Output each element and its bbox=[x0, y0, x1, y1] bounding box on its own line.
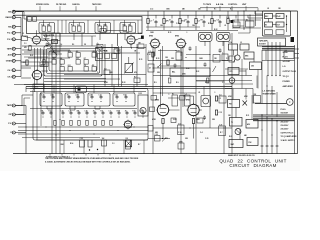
value label right-mid bbox=[171, 58, 175, 60]
cluster box C bbox=[229, 56, 235, 62]
valve V1 EF86 bbox=[149, 36, 161, 50]
jack contact box 4 bbox=[276, 22, 284, 27]
svg-text:POWER: POWER bbox=[283, 81, 291, 83]
svg-text:TO TAPE: TO TAPE bbox=[203, 3, 212, 6]
svg-text:C.25: C.25 bbox=[176, 23, 179, 25]
net label right2 3 bbox=[281, 125, 290, 127]
wire inter-group drop bbox=[57, 20, 59, 34]
wire balance bus bbox=[153, 60, 232, 62]
svg-text:C.19: C.19 bbox=[178, 123, 181, 125]
input socket P.U.1 bbox=[7, 31, 15, 34]
wire riser C bbox=[195, 46, 197, 154]
svg-text:R.9: R.9 bbox=[176, 82, 179, 84]
svg-text:.01: .01 bbox=[198, 92, 200, 94]
wire u-loop B bbox=[70, 106, 75, 110]
wire selector riser short bbox=[73, 85, 75, 94]
svg-text:.1: .1 bbox=[97, 43, 98, 45]
value label bbox=[168, 32, 171, 34]
wire psu verticals bbox=[246, 70, 258, 100]
svg-text:10K: 10K bbox=[41, 111, 44, 113]
capacitor C31 bbox=[69, 110, 73, 118]
svg-text:C.25: C.25 bbox=[205, 138, 208, 140]
value label centre bbox=[104, 50, 107, 53]
wire assembly drops bbox=[205, 41, 223, 46]
tone net box r0x52 bbox=[52, 50, 57, 57]
wire inter-group drop bbox=[137, 20, 139, 34]
wire group feed bbox=[44, 20, 50, 26]
wire input lead bbox=[15, 48, 21, 50]
wire stub edge bbox=[295, 49, 300, 58]
psu mid box bbox=[254, 94, 261, 103]
wire selector riser bbox=[83, 140, 85, 154]
wire filter drop bbox=[73, 34, 75, 41]
wire selector riser bbox=[143, 140, 145, 154]
selector group cap C26 bbox=[115, 94, 119, 102]
svg-text:C.7: C.7 bbox=[109, 111, 111, 113]
wire filter drop bbox=[45, 34, 47, 41]
wire inter-group drop bbox=[87, 20, 89, 34]
switch group res R4 bbox=[129, 26, 133, 31]
dropper resistor R60 bbox=[147, 52, 154, 57]
wire selector riser short bbox=[93, 85, 95, 94]
selector group cap C23 bbox=[76, 95, 80, 102]
svg-text:R.9: R.9 bbox=[154, 82, 157, 84]
coupling box E bbox=[134, 76, 140, 82]
switch group res R1 bbox=[48, 26, 52, 31]
wire left rows 3 bbox=[14, 52, 60, 85]
svg-text:C.12: C.12 bbox=[150, 9, 153, 11]
selector group cap C22 bbox=[67, 95, 71, 102]
svg-text:R.9: R.9 bbox=[101, 111, 103, 113]
svg-text:TAPE: TAPE bbox=[7, 104, 13, 107]
wire PSU rule bbox=[225, 89, 253, 104]
value label bbox=[160, 25, 164, 27]
coupling capacitor C72 bbox=[178, 140, 184, 149]
tone net box r1x52 bbox=[52, 58, 57, 64]
wire low bus B bbox=[18, 130, 148, 132]
coupling capacitor C14 bbox=[217, 19, 222, 25]
wire mic top link bbox=[17, 10, 19, 13]
resistor R43 bbox=[70, 120, 72, 125]
selector enclosure outer bbox=[33, 89, 148, 141]
svg-text:A GUIDE. ALTERNATE CHECKS SHO: A GUIDE. ALTERNATE CHECKS SHOULD BE MADE… bbox=[45, 160, 131, 163]
net label FILTER SW. bbox=[56, 4, 67, 11]
wire lower lead bbox=[15, 123, 26, 125]
wire selector riser short bbox=[133, 85, 135, 94]
wire top bus 2 bbox=[13, 14, 263, 16]
tone enclosure outer bbox=[44, 46, 102, 76]
resistor R48 bbox=[110, 120, 112, 125]
valve V7 output bbox=[155, 100, 170, 118]
switch group 2 bbox=[69, 23, 85, 34]
value label right-mid bbox=[152, 118, 157, 121]
switch group res R2 bbox=[78, 26, 82, 31]
smoothing block 2 bbox=[240, 42, 249, 50]
wire PSU risers bbox=[233, 89, 252, 140]
jack contact box 5 bbox=[265, 30, 273, 35]
smoothing block 1 bbox=[229, 41, 238, 50]
filter network enclosure bbox=[27, 17, 143, 34]
bias box bbox=[52, 40, 58, 44]
wire filter drop bbox=[99, 34, 101, 41]
wire anode feed bbox=[171, 15, 173, 18]
svg-text:R.7: R.7 bbox=[138, 144, 141, 146]
tone net box r1x84 bbox=[84, 58, 89, 64]
twin diode assembly 2 bbox=[217, 32, 231, 41]
wire centre riser bbox=[136, 44, 138, 87]
net label TAPE REC. bbox=[92, 3, 102, 11]
tone net box r1x60 bbox=[60, 58, 64, 64]
capacitor C18b bbox=[46, 42, 49, 46]
switch group labels bbox=[122, 25, 132, 27]
input socket CH.2 bbox=[7, 75, 15, 78]
input socket RADIO bbox=[5, 16, 15, 19]
cathode resistor R64 bbox=[192, 119, 194, 139]
value label right-mid bbox=[196, 119, 201, 121]
svg-text:200-210V: 200-210V bbox=[281, 122, 290, 124]
selector group cap C24 bbox=[90, 95, 94, 102]
tone net box r2x68 bbox=[68, 65, 73, 71]
input socket CH.1 bbox=[7, 69, 15, 72]
svg-text:TRANSFORMER: TRANSFORMER bbox=[263, 93, 277, 96]
wire input lead bbox=[15, 69, 21, 71]
screen box V8r bbox=[197, 118, 203, 123]
svg-text:C.7: C.7 bbox=[60, 65, 62, 67]
junction dots centre bbox=[104, 47, 137, 75]
wire selector riser bbox=[103, 140, 105, 154]
value label right-mid bbox=[185, 138, 189, 140]
resistor R20b bbox=[43, 60, 45, 65]
wire centre riser bbox=[104, 44, 106, 87]
sensitivity label box bbox=[33, 84, 44, 89]
input socket MIC bbox=[8, 25, 15, 28]
svg-text:CIRCUIT DIAGRAM: CIRCUIT DIAGRAM bbox=[229, 163, 276, 168]
value label bbox=[208, 23, 211, 25]
value label right-mid bbox=[214, 92, 215, 94]
plug pin bars bbox=[261, 145, 279, 147]
riser box C36 bbox=[176, 50, 182, 60]
resistor R66 bbox=[215, 110, 222, 115]
value label right-mid bbox=[198, 92, 200, 94]
capacitor block C49 bbox=[80, 138, 85, 147]
value label centre bbox=[97, 71, 100, 74]
output socket 2 bbox=[8, 113, 15, 116]
wire selector riser short bbox=[113, 85, 115, 94]
wire group feed bbox=[74, 20, 80, 26]
wire right-edge rail bbox=[297, 11, 299, 154]
mid box 219 bbox=[219, 93, 226, 103]
selector switch wafer bbox=[46, 40, 57, 55]
svg-text:FS2: FS2 bbox=[249, 142, 252, 144]
svg-text:FILTER SW.: FILTER SW. bbox=[56, 4, 67, 6]
wire input lead bbox=[15, 11, 18, 13]
input socket TAPE bbox=[7, 47, 16, 50]
grid resistor R18 bbox=[23, 60, 29, 65]
paper background bbox=[0, 0, 300, 171]
value label bbox=[150, 32, 155, 34]
wire psu drop 242 bbox=[241, 59, 243, 89]
value label right-mid bbox=[154, 82, 157, 84]
svg-text:C.7: C.7 bbox=[222, 82, 225, 84]
selector group box 88 bbox=[88, 93, 110, 106]
wire cap lead bbox=[187, 24, 189, 27]
bottom label row bbox=[46, 155, 70, 158]
switch contact dots bbox=[45, 39, 54, 52]
dropper resistor box bbox=[228, 68, 239, 75]
jack contact box 6 bbox=[276, 30, 284, 35]
capacitor C37 bbox=[117, 111, 121, 118]
wire left rows 2 bbox=[21, 62, 52, 66]
svg-text:OUT: OUT bbox=[277, 25, 280, 27]
svg-text:R.22: R.22 bbox=[205, 82, 208, 84]
valve V8 output bbox=[186, 100, 201, 118]
mic link box bbox=[40, 62, 48, 67]
net label STEREO MON. bbox=[36, 4, 50, 11]
output socket 3 bbox=[8, 122, 15, 125]
wire double riser A bbox=[161, 46, 163, 108]
value label right-mid bbox=[173, 119, 177, 121]
anode resistor R10 bbox=[147, 19, 152, 24]
svg-text:C.12: C.12 bbox=[99, 95, 102, 97]
jack contact box 2 bbox=[276, 14, 284, 19]
note line 1 bbox=[45, 157, 139, 160]
svg-text:R.9: R.9 bbox=[84, 65, 86, 67]
svg-text:R.7: R.7 bbox=[134, 76, 137, 78]
svg-text:OUTPUT PLUG: OUTPUT PLUG bbox=[283, 71, 297, 73]
net label right2 1 bbox=[281, 113, 289, 115]
wire screened riser bbox=[55, 33, 57, 154]
wire screened riser bbox=[51, 33, 53, 154]
selector group cap C27 bbox=[124, 95, 128, 102]
pu adaptor panel bbox=[96, 48, 119, 61]
filter box C39 bbox=[148, 50, 154, 61]
wire anode feed bbox=[187, 15, 189, 18]
net label CONTROL bbox=[228, 4, 238, 11]
value label right-mid bbox=[156, 58, 159, 60]
coupling capacitor C13 bbox=[201, 20, 206, 25]
wire jack links bbox=[269, 16, 287, 32]
dark connector blob bbox=[291, 37, 295, 42]
wire low bus A bbox=[18, 126, 148, 128]
coupling box C bbox=[138, 42, 144, 48]
selector group cap C21 bbox=[51, 95, 55, 102]
input socket AUX bbox=[8, 53, 16, 56]
wire aux bus bbox=[196, 80, 252, 82]
wire output cable bbox=[255, 103, 286, 105]
wire left vertical bundle bbox=[35, 48, 44, 92]
svg-text:CANCEL: CANCEL bbox=[72, 3, 81, 6]
wire u-loop C bbox=[95, 106, 100, 109]
tone net box r2x60 bbox=[60, 65, 64, 71]
value label right-mid bbox=[186, 68, 189, 70]
coupling capacitor C11 bbox=[169, 20, 174, 25]
wire box-left links bbox=[232, 11, 261, 28]
selector group box 65 bbox=[65, 93, 84, 106]
svg-text:R.22: R.22 bbox=[186, 68, 189, 70]
junction dots mid2 bbox=[153, 50, 211, 69]
svg-text:R.22: R.22 bbox=[122, 82, 125, 84]
net label right2 0 bbox=[281, 109, 287, 111]
wire anode feed bbox=[219, 15, 221, 18]
jack contact box 1 bbox=[265, 14, 273, 19]
svg-text:R.1: R.1 bbox=[214, 9, 217, 11]
component crossed box bbox=[126, 140, 132, 147]
svg-text:.05: .05 bbox=[267, 8, 269, 10]
selector group cap C25 bbox=[99, 95, 103, 102]
svg-text:.05: .05 bbox=[246, 19, 248, 21]
wire under-filter row bbox=[44, 35, 96, 37]
svg-text:R.22: R.22 bbox=[124, 95, 127, 97]
svg-text:12 AUX. SUPPLY: 12 AUX. SUPPLY bbox=[281, 139, 296, 142]
wire resistor lead bbox=[163, 24, 165, 31]
svg-text:AMPLIFIER: AMPLIFIER bbox=[283, 85, 294, 88]
coupling box B bbox=[114, 47, 120, 53]
resistor R62 bbox=[165, 57, 169, 65]
svg-text:C.3: C.3 bbox=[185, 93, 187, 95]
value label right-mid bbox=[165, 137, 169, 140]
capacitor C60 bbox=[174, 63, 177, 67]
wire input lead bbox=[15, 38, 21, 40]
psu feed box bbox=[246, 19, 255, 27]
wire anode feed bbox=[179, 11, 181, 19]
psu value label bbox=[244, 95, 249, 98]
svg-text:RADIO: RADIO bbox=[5, 16, 12, 19]
cluster box B bbox=[222, 52, 228, 60]
resistor R47 bbox=[102, 120, 104, 125]
coupling box A bbox=[97, 43, 103, 49]
svg-text:TO Q.II: TO Q.II bbox=[283, 76, 290, 78]
wire resistor lead bbox=[211, 24, 213, 31]
svg-text:.1: .1 bbox=[222, 52, 223, 54]
tone net box r1x76 bbox=[76, 58, 81, 64]
svg-text:PLUG: PLUG bbox=[281, 109, 287, 111]
wire filter bus bbox=[153, 75, 252, 77]
capacitor C62 bbox=[204, 62, 207, 66]
wire cathode drop bbox=[154, 49, 156, 56]
capacitor C29 bbox=[49, 110, 53, 118]
wire anode feed bbox=[227, 11, 229, 19]
svg-text:C.25: C.25 bbox=[61, 111, 64, 113]
svg-text:CONTROL: CONTROL bbox=[228, 4, 238, 6]
value label centre bbox=[134, 51, 137, 53]
wire lower bends bbox=[15, 95, 33, 115]
wire input lead bbox=[15, 32, 21, 34]
wire cable drop bbox=[262, 50, 266, 60]
wire input lead bbox=[15, 76, 21, 78]
wire lower riser bbox=[25, 106, 27, 154]
value label right-mid bbox=[199, 58, 204, 60]
grid box V8 bbox=[180, 96, 186, 101]
svg-text:L.S.: L.S. bbox=[283, 66, 287, 68]
svg-text:.1: .1 bbox=[168, 94, 169, 96]
junction dot tape B bbox=[286, 24, 287, 25]
switch group cap C3 bbox=[98, 26, 102, 31]
svg-text:C.19: C.19 bbox=[178, 132, 181, 134]
junction dots cable top bbox=[261, 85, 272, 135]
psu value label bbox=[229, 136, 232, 138]
wire HT dropper column bbox=[152, 46, 154, 154]
resistor R67 bbox=[169, 78, 171, 83]
net label right2 5 bbox=[281, 133, 294, 135]
tone net box r0x76 bbox=[76, 50, 81, 57]
svg-text:T1: T1 bbox=[231, 122, 233, 124]
wire cable risers mid bbox=[267, 76, 277, 117]
svg-text:C80: C80 bbox=[251, 66, 254, 68]
wire mic grid bbox=[18, 12, 33, 39]
svg-text:C.7: C.7 bbox=[226, 58, 229, 60]
pilot lamp bbox=[235, 129, 241, 135]
cluster box A bbox=[213, 55, 220, 63]
coupling capacitor C10 bbox=[153, 20, 158, 25]
wire selector riser bbox=[63, 140, 65, 154]
svg-text:MR1: MR1 bbox=[245, 56, 248, 58]
wire HT+ top bus bbox=[13, 10, 298, 12]
switch group cap C2 bbox=[72, 26, 76, 31]
wire psu feed rows bbox=[232, 26, 250, 33]
wire mic out rows bbox=[22, 46, 70, 58]
wire tube links bbox=[168, 98, 202, 110]
capacitor C30 bbox=[61, 111, 65, 118]
value label right-mid bbox=[176, 82, 179, 84]
filter choke box bbox=[284, 50, 294, 59]
title line 1 bbox=[219, 158, 286, 163]
cathode resistor R63 bbox=[162, 119, 164, 139]
value label right-mid bbox=[212, 119, 216, 121]
svg-text:R.22: R.22 bbox=[139, 93, 142, 95]
svg-text:.05: .05 bbox=[93, 111, 95, 113]
feed box 233 bbox=[233, 20, 240, 27]
interstage box V3pos bbox=[100, 29, 106, 33]
svg-text:R.31: R.31 bbox=[68, 65, 71, 67]
wire riser F bbox=[231, 33, 233, 154]
wire tape cable bbox=[262, 47, 295, 51]
tone net box r2x92 bbox=[92, 64, 97, 71]
capacitor block C51 bbox=[126, 138, 131, 149]
wire lower lead bbox=[15, 132, 26, 134]
capacitor C35 bbox=[101, 111, 105, 118]
wire inter-group drop bbox=[61, 20, 63, 34]
tone enclosure inner bbox=[49, 51, 97, 71]
electrolytic can box bbox=[76, 86, 87, 93]
grid box V7 bbox=[151, 96, 157, 101]
svg-text:EF86: EF86 bbox=[186, 100, 190, 102]
svg-text:SOCKET: SOCKET bbox=[283, 61, 292, 63]
wire interstage bus A bbox=[146, 30, 238, 32]
net label right 2 bbox=[283, 61, 292, 63]
thermistor housing bbox=[201, 96, 211, 107]
anode resistor R12 bbox=[179, 19, 185, 24]
wiper arrow bbox=[162, 138, 166, 142]
value label right-mid bbox=[168, 94, 169, 96]
mic adaptor label box bbox=[42, 33, 60, 41]
svg-text:R.7: R.7 bbox=[172, 93, 174, 95]
capacitor C39 bbox=[133, 111, 137, 118]
svg-text:33K: 33K bbox=[60, 58, 63, 60]
coupling box D bbox=[104, 67, 110, 74]
chassis tick bbox=[49, 154, 51, 156]
value label right-mid bbox=[200, 131, 203, 134]
svg-text:C.3: C.3 bbox=[112, 143, 115, 145]
anode resistor R15 bbox=[227, 19, 232, 24]
svg-text:.01: .01 bbox=[169, 20, 171, 22]
wire mid rule A bbox=[26, 86, 232, 88]
title line 2 bbox=[229, 163, 276, 168]
svg-text:A.B. MA.: A.B. MA. bbox=[216, 3, 224, 6]
switch labels bbox=[44, 36, 55, 50]
input socket P.U.2 bbox=[7, 38, 15, 41]
matching transformer label bbox=[263, 90, 277, 96]
svg-text:R.22: R.22 bbox=[76, 58, 79, 60]
